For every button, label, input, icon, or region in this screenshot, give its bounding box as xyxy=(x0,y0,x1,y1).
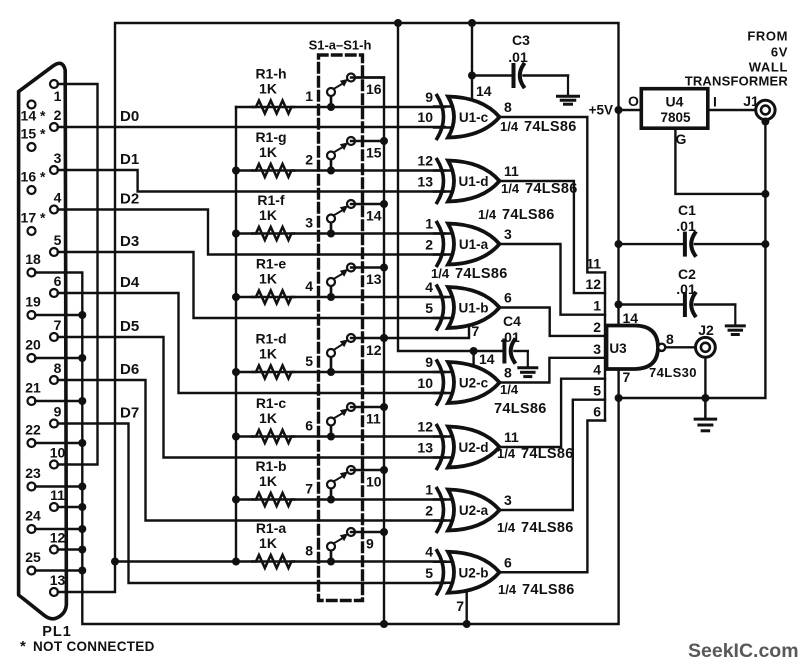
wire pin 20 to ground bus xyxy=(35,357,82,359)
node switch S1-e common xyxy=(380,264,388,272)
svg-text:1K: 1K xyxy=(259,346,277,362)
pin 1 of PL1 xyxy=(50,80,58,88)
wire J1 sleeve down right side xyxy=(619,120,766,398)
wire pin1 to pin10 (strobe-ack) xyxy=(58,84,98,465)
svg-text:14: 14 xyxy=(366,208,382,224)
pin 9 of PL1 xyxy=(50,420,58,428)
svg-text:SeekIC.com: SeekIC.com xyxy=(688,640,799,662)
wire switch S1-c to ground bus xyxy=(351,406,384,408)
svg-text:2: 2 xyxy=(305,152,313,168)
node +5V at regulator output xyxy=(615,106,623,114)
ground for C4 xyxy=(527,351,529,366)
pin 14 of PL1 xyxy=(28,101,36,109)
wire row h: pull-up / switch to XOR input xyxy=(236,106,445,108)
wire U2-c pin14 stub xyxy=(472,351,474,364)
capacitor C2 .01 xyxy=(619,303,685,305)
pin 24 of PL1 xyxy=(28,525,36,533)
inverter bubble of U3 xyxy=(658,344,665,351)
svg-text:9: 9 xyxy=(425,89,433,105)
svg-text:18: 18 xyxy=(25,251,41,267)
resistor R1-g 1K xyxy=(252,164,294,177)
svg-text:2: 2 xyxy=(54,107,62,123)
svg-text:20: 20 xyxy=(25,337,41,353)
svg-text:74LS86: 74LS86 xyxy=(521,446,574,462)
resistor R1-e 1K xyxy=(252,291,294,304)
svg-text:6V: 6V xyxy=(771,45,788,60)
svg-text:1K: 1K xyxy=(259,410,277,426)
svg-text:1/4: 1/4 xyxy=(497,520,516,535)
svg-text:S1-a–S1-h: S1-a–S1-h xyxy=(309,38,372,53)
svg-text:74LS86: 74LS86 xyxy=(525,181,578,197)
svg-text:2: 2 xyxy=(425,503,433,519)
svg-text:8: 8 xyxy=(504,365,512,381)
svg-text:16: 16 xyxy=(366,81,382,97)
node switch common joins bottom ground rail xyxy=(380,620,388,628)
svg-text:C1: C1 xyxy=(678,202,696,218)
svg-text:3: 3 xyxy=(305,215,313,231)
pin 20 of PL1 xyxy=(28,354,36,362)
pin 25 of PL1 xyxy=(28,567,36,575)
svg-text:1: 1 xyxy=(305,88,313,104)
wire output U1-a pin 3 to U3 input 1 xyxy=(500,244,605,315)
svg-text:3: 3 xyxy=(504,226,512,242)
pin 16 of PL1 xyxy=(28,186,36,194)
XOR gate U1-d (1/4 74LS86) xyxy=(448,161,500,202)
capacitor C3 .01 xyxy=(472,74,514,76)
svg-text:10: 10 xyxy=(417,109,433,125)
wire output U2-a pin 3 to U3 input 5 xyxy=(500,400,605,510)
svg-text:NOT CONNECTED: NOT CONNECTED xyxy=(33,639,155,654)
wire data line D4 xyxy=(58,293,445,393)
wire U2 pin14 +5V feed from top rail xyxy=(398,23,474,351)
wire U2 pin7 to bottom ground xyxy=(466,592,468,624)
switch S1-a xyxy=(327,558,335,566)
svg-text:U2-d: U2-d xyxy=(459,440,489,455)
wire output U2-c pin 8 to U3 input 3 xyxy=(500,358,605,383)
XOR gate U2-c (1/4 74LS86) xyxy=(448,362,500,403)
XOR gate U2-b (1/4 74LS86) xyxy=(448,552,500,593)
svg-text:6: 6 xyxy=(504,290,512,306)
svg-text:*: * xyxy=(20,638,26,655)
svg-text:TRANSFORMER: TRANSFORMER xyxy=(685,74,789,89)
connector PL1 outline xyxy=(19,63,67,618)
node pull-up bus row g xyxy=(232,167,240,175)
wire U1 pin14 to +5V / C3 xyxy=(471,23,473,98)
svg-text:U1-d: U1-d xyxy=(459,174,489,189)
svg-text:U3: U3 xyxy=(609,341,627,356)
node C2 / U3 pin14 xyxy=(615,301,623,309)
svg-text:5: 5 xyxy=(593,383,601,399)
svg-text:1/4: 1/4 xyxy=(500,382,519,397)
svg-text:13: 13 xyxy=(50,572,66,588)
switch S1-b xyxy=(327,496,335,504)
wire output U2-b pin 6 to U3 input 6 xyxy=(500,421,605,573)
ground for J2 xyxy=(704,398,706,418)
resistor R1-h 1K xyxy=(252,101,294,114)
svg-text:74LS86: 74LS86 xyxy=(455,266,508,282)
wire switch S1-d to ground bus xyxy=(351,337,384,339)
svg-text:J2: J2 xyxy=(698,322,714,338)
node U2 pin14 tap xyxy=(470,347,478,355)
capacitor C1 .01 xyxy=(619,243,685,245)
svg-text:8: 8 xyxy=(504,99,512,115)
svg-text:11: 11 xyxy=(504,429,519,445)
svg-text:.01: .01 xyxy=(676,281,696,297)
svg-text:+5V: +5V xyxy=(589,103,613,118)
svg-text:O: O xyxy=(628,93,639,109)
svg-text:6: 6 xyxy=(54,273,62,289)
wire pin 23 to ground bus xyxy=(35,485,82,487)
svg-text:17 *: 17 * xyxy=(21,210,46,226)
pin 17 of PL1 xyxy=(28,227,36,235)
svg-text:1K: 1K xyxy=(259,271,277,287)
XOR gate U1-c (1/4 74LS86) xyxy=(448,97,500,138)
wire switch S1-f to ground bus xyxy=(351,203,384,205)
pin 6 of PL1 xyxy=(50,289,58,297)
svg-text:4: 4 xyxy=(305,278,313,294)
node switch S1-d common xyxy=(380,334,388,342)
svg-text:1/4: 1/4 xyxy=(500,119,519,134)
node pull-up bus row e xyxy=(232,293,240,301)
NAND gate U3 74LS30 xyxy=(607,326,659,370)
wire switch S1-e to ground bus xyxy=(351,266,384,268)
node pull-up bus row c xyxy=(232,433,240,441)
svg-text:7: 7 xyxy=(305,481,313,497)
svg-text:74LS86: 74LS86 xyxy=(524,119,577,135)
wire data line D7 xyxy=(58,424,445,584)
svg-text:13: 13 xyxy=(366,271,382,287)
XOR gate U1-b (1/4 74LS86) xyxy=(448,287,500,328)
svg-text:12: 12 xyxy=(366,342,382,358)
svg-text:.01: .01 xyxy=(500,329,520,345)
resistor R1-d 1K xyxy=(252,366,294,379)
pin 19 of PL1 xyxy=(28,311,36,319)
node J1 sleeve xyxy=(761,118,769,126)
svg-text:24: 24 xyxy=(25,508,41,524)
svg-text:5: 5 xyxy=(54,232,62,248)
node switch S1-a common xyxy=(380,528,388,536)
wire pin 24 to ground bus xyxy=(35,528,82,530)
svg-text:PL1: PL1 xyxy=(42,624,72,640)
wire pin 21 to ground bus xyxy=(35,400,82,402)
svg-text:5: 5 xyxy=(425,565,433,581)
svg-text:U2-a: U2-a xyxy=(459,503,489,518)
pin 13 of PL1 xyxy=(50,588,58,596)
svg-text:4: 4 xyxy=(425,279,433,295)
XOR gate U1-a (1/4 74LS86) xyxy=(448,224,500,265)
node J2 sleeve on ground line xyxy=(701,394,709,402)
svg-text:23: 23 xyxy=(25,465,41,481)
wire output U2-d pin 11 to U3 input 4 xyxy=(500,379,605,447)
wire data line D5 xyxy=(58,337,445,458)
svg-text:6: 6 xyxy=(504,554,512,570)
node C3 tap xyxy=(468,72,476,80)
svg-text:U1-a: U1-a xyxy=(459,237,489,252)
ground for C2 xyxy=(734,305,736,325)
svg-text:15 *: 15 * xyxy=(21,126,46,142)
wire +5V node to U4 output xyxy=(619,109,642,111)
svg-text:1K: 1K xyxy=(259,81,277,97)
svg-text:4: 4 xyxy=(425,544,433,560)
svg-text:C3: C3 xyxy=(512,32,530,48)
resistor R1-f 1K xyxy=(252,227,294,240)
svg-text:1/4: 1/4 xyxy=(498,582,517,597)
svg-text:9: 9 xyxy=(54,404,62,420)
voltage regulator U4 7805 xyxy=(641,89,708,129)
svg-text:6: 6 xyxy=(593,404,601,420)
XOR gate U2-a (1/4 74LS86) xyxy=(448,490,500,531)
svg-text:22: 22 xyxy=(25,422,41,438)
jack J2 xyxy=(696,337,716,357)
resistor R1-c 1K xyxy=(252,430,294,443)
node switch S1-f common xyxy=(380,200,388,208)
DIP switch S1-a--S1-h dashed outline xyxy=(319,55,363,601)
svg-text:1K: 1K xyxy=(259,535,277,551)
pin 10 of PL1 xyxy=(50,461,58,469)
svg-text:1/4: 1/4 xyxy=(431,266,450,281)
svg-text:7: 7 xyxy=(623,369,631,385)
svg-text:10: 10 xyxy=(366,474,382,490)
svg-text:13: 13 xyxy=(417,174,433,190)
svg-text:D0: D0 xyxy=(120,108,139,125)
node pull-up bus row b xyxy=(232,496,240,504)
ground bus from connector pins 18-25 down to bottom rail xyxy=(35,273,618,625)
svg-text:D3: D3 xyxy=(120,233,139,250)
svg-text:9: 9 xyxy=(366,536,374,552)
pin 7 of PL1 xyxy=(50,333,58,341)
svg-text:14: 14 xyxy=(476,83,492,99)
svg-text:14 *: 14 * xyxy=(21,108,46,124)
capacitor C4 .01 xyxy=(474,350,505,352)
pin 22 of PL1 xyxy=(28,439,36,447)
svg-text:R1-e: R1-e xyxy=(256,256,287,272)
wire +5V feed to pull-up bus (row a) xyxy=(115,560,236,562)
resistor R1-a 1K xyxy=(252,555,294,568)
svg-text:I: I xyxy=(713,94,717,110)
svg-text:74LS86: 74LS86 xyxy=(522,582,575,598)
svg-text:8: 8 xyxy=(305,543,313,559)
svg-text:11: 11 xyxy=(504,163,519,179)
wire output U1-d pin 11 to U3 input 12 xyxy=(500,181,605,293)
node U2 pin7 on bottom ground rail xyxy=(463,620,471,628)
svg-text:21: 21 xyxy=(25,380,41,396)
svg-text:1: 1 xyxy=(425,216,433,232)
svg-text:.01: .01 xyxy=(508,49,528,65)
svg-text:4: 4 xyxy=(593,362,601,378)
wire switch S1-g to ground bus xyxy=(351,140,384,142)
svg-text:3: 3 xyxy=(54,150,62,166)
svg-text:R1-g: R1-g xyxy=(255,129,286,145)
svg-text:8: 8 xyxy=(54,360,62,376)
svg-text:15: 15 xyxy=(366,145,382,161)
wire pin 12 to ground bus xyxy=(58,548,83,550)
svg-text:5: 5 xyxy=(305,353,313,369)
svg-text:R1-c: R1-c xyxy=(256,395,287,411)
svg-text:D4: D4 xyxy=(120,274,140,291)
svg-text:7: 7 xyxy=(456,598,464,614)
wire row b: pull-up / switch to XOR input xyxy=(236,498,445,500)
node C1 right xyxy=(761,240,769,248)
svg-text:19: 19 xyxy=(25,294,41,310)
+5V rail (top) and left edge wire xyxy=(58,23,619,592)
svg-text:G: G xyxy=(676,131,687,147)
switch S1-h xyxy=(327,103,335,111)
svg-text:14: 14 xyxy=(479,351,495,367)
ground for C3 xyxy=(567,76,569,95)
svg-text:1: 1 xyxy=(425,482,433,498)
wire row f: pull-up / switch to XOR input xyxy=(236,232,445,234)
svg-text:D1: D1 xyxy=(120,151,139,168)
svg-text:74LS30: 74LS30 xyxy=(649,365,697,380)
pin 23 of PL1 xyxy=(28,483,36,491)
svg-text:2: 2 xyxy=(593,319,601,335)
svg-text:4: 4 xyxy=(54,190,62,206)
wire data line D3 xyxy=(58,252,445,318)
wire data line D6 xyxy=(58,380,445,521)
svg-text:74LS86: 74LS86 xyxy=(494,401,547,417)
svg-text:12: 12 xyxy=(50,530,66,546)
svg-text:3: 3 xyxy=(504,492,512,508)
svg-text:25: 25 xyxy=(25,549,41,565)
svg-text:R1-b: R1-b xyxy=(255,458,286,474)
svg-text:U1-c: U1-c xyxy=(459,110,489,125)
node: +5V junction on top rail at U1 pin14 drop xyxy=(468,19,476,27)
wire output U1-b pin 6 to U3 input 2 xyxy=(500,308,605,336)
wire row g: pull-up / switch to XOR input xyxy=(236,169,445,171)
svg-text:7805: 7805 xyxy=(660,110,691,125)
switch S1-c xyxy=(327,433,335,441)
svg-text:1K: 1K xyxy=(259,144,277,160)
svg-text:74LS86: 74LS86 xyxy=(521,520,574,536)
wire U3 output to J2 xyxy=(665,346,695,348)
svg-text:10: 10 xyxy=(417,375,433,391)
wire data line D0 xyxy=(58,126,445,128)
pin 12 of PL1 xyxy=(50,546,58,554)
wire switch S1-a to ground bus xyxy=(351,531,384,533)
wire switch S1-h to ground bus xyxy=(351,76,384,78)
pin 2 of PL1 xyxy=(50,123,58,131)
wire row a: pull-up / switch to XOR input xyxy=(236,560,445,562)
svg-text:FROM: FROM xyxy=(747,29,788,44)
svg-text:1/4: 1/4 xyxy=(501,181,520,196)
node switch S1-c common xyxy=(380,403,388,411)
svg-text:1/4: 1/4 xyxy=(497,446,516,461)
svg-text:D2: D2 xyxy=(120,191,139,208)
svg-text:12: 12 xyxy=(417,153,433,169)
pin 18 of PL1 xyxy=(28,269,36,277)
wire U4 ground pin G xyxy=(675,128,765,194)
svg-text:C4: C4 xyxy=(503,313,521,329)
svg-text:U1-b: U1-b xyxy=(459,301,489,316)
svg-text:11: 11 xyxy=(366,411,381,427)
svg-text:U2-b: U2-b xyxy=(459,565,489,580)
svg-text:6: 6 xyxy=(305,418,313,434)
svg-text:12: 12 xyxy=(585,276,601,292)
switch S1-d xyxy=(327,368,335,376)
svg-text:.01: .01 xyxy=(676,218,696,234)
wire row e: pull-up / switch to XOR input xyxy=(236,296,445,298)
wire resistor pull-up bus xyxy=(235,107,237,562)
wire U1 pin7 to ground bus xyxy=(384,327,469,338)
svg-text:R1-h: R1-h xyxy=(255,66,286,82)
wire switch S1-b to ground bus xyxy=(351,469,384,471)
node G to sleeve line xyxy=(761,190,769,198)
wire U3 input bus xyxy=(604,272,606,420)
svg-text:14: 14 xyxy=(623,310,639,326)
node: +5V to pull-up bus / pin 13 xyxy=(111,558,119,566)
svg-text:10: 10 xyxy=(50,445,66,461)
svg-text:3: 3 xyxy=(593,341,601,357)
pin 4 of PL1 xyxy=(50,206,58,214)
svg-text:13: 13 xyxy=(417,440,433,456)
pin 3 of PL1 xyxy=(50,166,58,174)
svg-text:U2-c: U2-c xyxy=(459,376,489,391)
node C1 left xyxy=(615,240,623,248)
pin 21 of PL1 xyxy=(28,397,36,405)
pin 15 of PL1 xyxy=(28,143,36,151)
svg-text:11: 11 xyxy=(586,255,601,271)
svg-text:16 *: 16 * xyxy=(21,169,46,185)
svg-text:1K: 1K xyxy=(259,207,277,223)
wire data line D2 xyxy=(58,210,445,255)
pin 5 of PL1 xyxy=(50,248,58,256)
wire data line D1 xyxy=(58,170,445,192)
wire row c: pull-up / switch to XOR input xyxy=(236,435,445,437)
svg-text:9: 9 xyxy=(425,354,433,370)
node pull-up bus row d xyxy=(232,368,240,376)
svg-text:D6: D6 xyxy=(120,361,139,378)
node: +5V junction on top rail at switch-common drop xyxy=(394,19,402,27)
switch S1-f xyxy=(327,230,335,238)
wire pin 19 to ground bus xyxy=(35,314,82,316)
svg-text:5: 5 xyxy=(425,300,433,316)
svg-text:R1-d: R1-d xyxy=(255,331,286,347)
node U1 pin7 / switch common xyxy=(380,334,388,342)
svg-text:R1-f: R1-f xyxy=(257,192,285,208)
svg-text:D5: D5 xyxy=(120,318,139,335)
switch S1-e xyxy=(327,293,335,301)
svg-text:8: 8 xyxy=(666,331,674,347)
svg-text:C2: C2 xyxy=(678,266,696,282)
svg-text:2: 2 xyxy=(425,237,433,253)
wire switch-common ground bus xyxy=(351,78,384,625)
wire row d: pull-up / switch to XOR input xyxy=(236,371,445,373)
resistor R1-b 1K xyxy=(252,493,294,506)
wire pin 25 to ground bus xyxy=(35,569,82,571)
node switch S1-g common xyxy=(380,137,388,145)
XOR gate U2-d (1/4 74LS86) xyxy=(448,427,500,468)
pin 11 of PL1 xyxy=(50,503,58,511)
wire U4 input to J1 xyxy=(708,109,756,111)
svg-text:D7: D7 xyxy=(120,405,139,422)
wire J2 sleeve to ground xyxy=(704,357,706,417)
svg-text:1: 1 xyxy=(593,298,601,314)
switch S1-g xyxy=(327,167,335,175)
wire pin 11 to ground bus xyxy=(58,506,83,508)
node pull-up bus row f xyxy=(232,230,240,238)
wire output U1-c pin 8 to U3 input 11 xyxy=(500,117,605,272)
svg-text:1K: 1K xyxy=(259,473,277,489)
svg-text:11: 11 xyxy=(50,487,65,503)
node switch S1-b common xyxy=(380,466,388,474)
svg-text:R1-a: R1-a xyxy=(256,520,287,536)
svg-text:U4: U4 xyxy=(666,94,684,110)
jack J1 xyxy=(756,100,775,119)
svg-text:7: 7 xyxy=(472,323,480,339)
svg-text:74LS86: 74LS86 xyxy=(502,207,555,223)
svg-text:7: 7 xyxy=(54,317,62,333)
svg-text:1: 1 xyxy=(54,88,62,104)
